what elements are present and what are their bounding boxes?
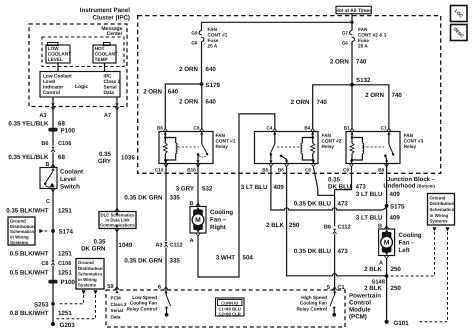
svg-text:Low Speed: Low Speed	[132, 295, 157, 300]
wire 2 ORN 740 S132 to relay3 coil	[351, 85, 353, 128]
svg-text:M: M	[195, 217, 201, 224]
svg-text:640: 640	[206, 99, 217, 106]
svg-text:Cooling: Cooling	[210, 209, 233, 216]
svg-text:Control: Control	[43, 90, 60, 96]
svg-text:FAN: FAN	[404, 133, 414, 138]
pin 5 C1 of PCM	[332, 287, 336, 294]
svg-text:2 ORN: 2 ORN	[179, 66, 198, 73]
splice S132	[350, 83, 354, 87]
svg-text:B1: B1	[344, 126, 350, 131]
svg-text:in Wiring: in Wiring	[78, 277, 97, 282]
indicator HOT COOLANT TEMP	[104, 43, 111, 46]
svg-text:2 ORN: 2 ORN	[143, 89, 162, 96]
svg-text:Ground: Ground	[10, 219, 26, 224]
dashed reference lead to S253	[82, 290, 86, 294]
pin 6 of PCM	[164, 287, 168, 294]
svg-text:C: C	[46, 199, 50, 205]
svg-text:2 ORN: 2 ORN	[291, 99, 310, 106]
wire 2 ORN 640 S179 branch to relay1 coil	[165, 84, 201, 128]
wire 3 WHT 504 right fan A to relay2 C4	[198, 114, 275, 277]
svg-text:LOW: LOW	[48, 46, 60, 51]
svg-text:Schematics: Schematics	[10, 229, 35, 234]
splice S253	[51, 302, 55, 306]
reference Ground Distribution Schematics (left)	[8, 217, 35, 245]
svg-text:Systems: Systems	[78, 283, 97, 288]
svg-text:FAN: FAN	[208, 27, 218, 32]
svg-text:S174: S174	[59, 229, 74, 236]
svg-text:Ground: Ground	[430, 195, 446, 200]
svg-text:(PCM): (PCM)	[349, 314, 367, 321]
svg-text:B: B	[189, 201, 193, 207]
relay U2 coil-switch dashed link	[277, 146, 302, 148]
svg-text:2 ORN: 2 ORN	[365, 92, 384, 99]
svg-text:Center: Center	[107, 31, 123, 37]
wire 3 LT BLU 409 relay2 B5 to S175	[271, 167, 387, 210]
svg-text:C8: C8	[41, 261, 48, 267]
svg-text:Cooling: Cooling	[399, 232, 422, 239]
svg-text:3 LT BLU: 3 LT BLU	[356, 215, 383, 222]
svg-text:1251: 1251	[58, 310, 72, 317]
wire 0.8 BLK/WHT 1251 S253 to G203	[52, 304, 54, 324]
svg-text:409: 409	[274, 184, 285, 191]
relay U1 coil	[164, 132, 166, 144]
label Hot at All Times	[336, 6, 371, 14]
wire 0.35 GRY 1036 IPC A7 to DLC	[116, 107, 118, 212]
wire 2 BLK 250 S148 to G101	[386, 276, 388, 322]
svg-text:Powertrain: Powertrain	[349, 293, 381, 300]
ground G203	[51, 322, 55, 326]
dashed reference lead to G101	[445, 227, 449, 231]
svg-text:Fuse: Fuse	[358, 38, 369, 43]
svg-text:Level: Level	[43, 79, 55, 85]
wire LOW indicator to logic	[57, 63, 59, 72]
wire 0.5 BLK/WHT 1251 S174 to C106	[52, 231, 54, 260]
wire 2 ORN 740 fuse2 to S132	[351, 42, 353, 85]
svg-text:C106: C106	[58, 261, 71, 267]
svg-text:GRY: GRY	[98, 158, 112, 165]
svg-text:250: 250	[391, 266, 402, 273]
connector P100 upper	[48, 128, 57, 132]
relay U3 pin C9 bottom	[349, 160, 353, 167]
svg-text:COOLANT: COOLANT	[95, 52, 118, 57]
svg-text:S132: S132	[356, 77, 371, 84]
node feed junction	[350, 21, 353, 24]
svg-text:2 ORN: 2 ORN	[179, 99, 198, 106]
svg-text:CONT #1: CONT #1	[208, 32, 228, 37]
button LOC (top right)	[451, 6, 468, 22]
svg-text:3 LT BLU: 3 LT BLU	[356, 191, 383, 198]
splice S174	[51, 229, 55, 233]
svg-text:Level: Level	[60, 176, 76, 183]
svg-text:CONT #2: CONT #2	[322, 139, 342, 144]
svg-text:Instrument Panel: Instrument Panel	[80, 7, 130, 14]
svg-text:59: 59	[107, 284, 113, 290]
wire 0.35 DK GRN 1049 DLC to PCM pin 59	[116, 229, 118, 291]
Underhood Junction Block dashed box	[138, 16, 441, 174]
svg-text:473: 473	[356, 184, 367, 191]
wire 2 ORN 740 S132 branch to relay2 coil	[313, 85, 352, 128]
svg-text:COOLANT: COOLANT	[48, 52, 71, 57]
svg-text:S253: S253	[34, 302, 49, 309]
svg-text:G101: G101	[394, 320, 410, 327]
svg-text:740: 740	[392, 92, 403, 99]
svg-text:M: M	[384, 240, 390, 247]
low speed fan control driver switch	[165, 290, 167, 295]
IPC instrument panel cluster dashed box	[29, 24, 127, 107]
relay U2 pin B4 top	[311, 128, 315, 135]
svg-text:B: B	[45, 162, 49, 168]
svg-text:Serial: Serial	[111, 308, 124, 313]
svg-text:0.35 BLK/WHT: 0.35 BLK/WHT	[6, 208, 49, 215]
PCM powertrain control module dashed box	[106, 290, 345, 327]
high speed fan control driver switch	[334, 290, 336, 295]
svg-text:C106: C106	[58, 141, 71, 147]
svg-text:G9: G9	[191, 30, 198, 35]
svg-text:Logic: Logic	[75, 84, 89, 90]
svg-text:1251: 1251	[58, 270, 72, 277]
svg-text:Ground: Ground	[78, 260, 94, 265]
IPC logic box	[40, 72, 120, 98]
wire 0.35 DK GRN 335 C112 to PCM pin 6	[165, 248, 167, 291]
svg-text:CONT #3: CONT #3	[404, 139, 424, 144]
svg-text:A: A	[189, 238, 193, 244]
relay U1 coil-switch dashed link	[178, 146, 200, 148]
relay U3 coil	[351, 132, 353, 144]
wire HOT indicator to logic	[104, 63, 106, 72]
svg-text:Relay Control: Relay Control	[297, 306, 327, 311]
svg-text:0.35 YEL/BLK: 0.35 YEL/BLK	[8, 121, 49, 128]
svg-text:B9: B9	[378, 167, 384, 172]
svg-text:Low Coolant: Low Coolant	[43, 74, 72, 80]
svg-text:A3: A3	[155, 243, 162, 249]
svg-text:LEVEL: LEVEL	[48, 57, 63, 62]
wire 0.35 DK BLU 473 coils to C112	[334, 190, 336, 227]
relay U1 FAN CONT #1 box	[159, 132, 213, 164]
svg-text:TEMP: TEMP	[95, 57, 108, 62]
svg-text:PCM: PCM	[111, 296, 121, 301]
wire 2 ORN 640 fuse1 to S179	[201, 42, 203, 85]
svg-text:473: 473	[338, 248, 349, 255]
svg-text:740: 740	[317, 99, 328, 106]
svg-text:C6: C6	[305, 167, 311, 172]
svg-text:FAN: FAN	[322, 133, 332, 138]
relay U2 coil	[312, 132, 314, 144]
svg-text:Right: Right	[210, 224, 226, 231]
wire 2 BLK 250 left fan A to S148	[386, 259, 388, 277]
relay U3 switch	[388, 132, 390, 145]
svg-text:Distribution: Distribution	[78, 266, 103, 271]
svg-text:Relay: Relay	[216, 144, 229, 149]
svg-text:1251: 1251	[58, 251, 72, 258]
wire feed to fuse 1	[202, 21, 353, 23]
svg-text:Control: Control	[349, 300, 371, 307]
svg-text:IPC: IPC	[104, 74, 113, 80]
svg-text:335: 335	[170, 258, 181, 265]
relay U1 pin C8 top	[200, 128, 204, 135]
svg-text:0.35: 0.35	[328, 177, 341, 184]
motor M2 Cooling Fan Left	[379, 229, 395, 256]
ground G101	[385, 320, 389, 324]
svg-text:Data: Data	[104, 90, 115, 96]
relay U1 pin B6 top	[163, 128, 167, 135]
wire logic to IPC pin A7	[116, 97, 118, 107]
svg-text:P100: P100	[61, 279, 76, 286]
dashed reference lead to G203	[93, 290, 97, 294]
svg-text:250: 250	[289, 222, 300, 229]
svg-text:in Wiring: in Wiring	[430, 213, 449, 218]
svg-text:FAN: FAN	[358, 27, 368, 32]
svg-text:409: 409	[390, 191, 401, 198]
svg-text:FAN: FAN	[216, 133, 226, 138]
svg-text:B6: B6	[157, 126, 163, 131]
svg-text:Junction Block –: Junction Block –	[387, 176, 436, 183]
svg-text:2 BLK: 2 BLK	[266, 222, 284, 229]
svg-text:G7: G7	[342, 30, 349, 35]
wire 2 BLK 250 relay2 B6 to S148	[287, 167, 387, 276]
svg-text:1049: 1049	[119, 242, 133, 249]
relay U2 pin C6 bottom	[311, 160, 315, 167]
svg-text:Cooling Fan: Cooling Fan	[300, 301, 327, 306]
relay U2 pin C4 top	[273, 128, 277, 135]
svg-text:Serial: Serial	[104, 85, 117, 91]
svg-text:B5: B5	[262, 167, 268, 172]
relay U2 pin B6 bottom	[284, 160, 288, 167]
splice S179	[200, 82, 204, 86]
svg-text:G6: G6	[342, 41, 349, 46]
svg-text:5: 5	[327, 285, 330, 291]
svg-text:Cluster (IPC): Cluster (IPC)	[93, 15, 130, 22]
relay U3 coil-switch dashed link	[363, 146, 385, 148]
svg-text:0.35 YEL/BLK: 0.35 YEL/BLK	[8, 154, 49, 161]
svg-text:CONT #1: CONT #1	[216, 139, 236, 144]
svg-text:Switch: Switch	[60, 184, 80, 191]
dashed reference lead to S174	[39, 229, 43, 233]
svg-text:Systems: Systems	[430, 219, 449, 224]
svg-text:C8: C8	[194, 126, 200, 131]
svg-text:6: 6	[158, 285, 161, 291]
svg-text:C1: C1	[338, 285, 345, 291]
pin A cooling fan left	[384, 252, 388, 259]
CONN ID table	[216, 298, 245, 316]
svg-text:2 BLK: 2 BLK	[364, 266, 382, 273]
svg-text:Cooling Fan: Cooling Fan	[130, 301, 157, 306]
svg-text:250: 250	[391, 285, 402, 292]
svg-text:Fan –: Fan –	[210, 217, 227, 224]
svg-text:Hot at All Times: Hot at All Times	[335, 8, 372, 14]
svg-text:C1: C1	[381, 126, 387, 131]
svg-text:Module: Module	[349, 307, 371, 314]
relay U1 switch	[201, 132, 203, 145]
svg-text:Class 2: Class 2	[111, 302, 128, 307]
wire 0.35 DK GRN 335 relay1 C10 to C112	[165, 164, 167, 242]
svg-text:Schematics: Schematics	[430, 207, 455, 212]
svg-text:0.35 DK BLU: 0.35 DK BLU	[294, 248, 332, 255]
svg-text:25 A: 25 A	[208, 44, 218, 49]
connector P100 lower	[48, 280, 57, 284]
svg-text:C112: C112	[170, 243, 183, 249]
reference DLC Schematics in Data Link Communications	[99, 212, 136, 229]
svg-text:0.5 BLK/WHT: 0.5 BLK/WHT	[10, 251, 49, 258]
svg-text:A7: A7	[104, 113, 111, 119]
svg-text:A3: A3	[39, 113, 46, 119]
svg-text:in Wiring: in Wiring	[10, 235, 29, 240]
switch SW1 coolant level	[40, 168, 57, 189]
svg-text:2 ORN: 2 ORN	[330, 59, 349, 66]
svg-text:409: 409	[390, 215, 401, 222]
svg-text:Indicator: Indicator	[43, 85, 63, 91]
svg-text:335: 335	[170, 195, 181, 202]
svg-text:HOT: HOT	[95, 46, 105, 51]
svg-text:C10: C10	[155, 167, 164, 172]
svg-text:Distribution: Distribution	[430, 201, 455, 206]
svg-text:68: 68	[58, 154, 65, 161]
wire 2 ORN 740 S132 branch to relay3 switch	[352, 85, 389, 128]
reference Ground Distribution Schematics (right)	[428, 194, 455, 226]
relay U2 pin B5 bottom	[269, 160, 273, 167]
wire 0.35 DK BLU 473 relay3 C9 branch	[335, 167, 352, 190]
svg-text:1251: 1251	[58, 208, 72, 215]
button DESC (top right)	[451, 25, 468, 41]
svg-text:Coolant: Coolant	[60, 169, 83, 176]
wire 0.35 DK BLU 473 C112 to PCM pin 5	[334, 234, 336, 290]
svg-text:Relay Control: Relay Control	[127, 306, 157, 311]
svg-text:Distribution: Distribution	[10, 224, 35, 229]
svg-text:DK GRN: DK GRN	[81, 246, 106, 253]
svg-text:3 GRY: 3 GRY	[176, 186, 195, 193]
svg-text:G203: G203	[60, 322, 76, 329]
svg-text:640: 640	[206, 66, 217, 73]
svg-text:B4: B4	[304, 126, 310, 131]
svg-text:CONN ID: CONN ID	[221, 300, 238, 305]
svg-text:2 BLK: 2 BLK	[364, 285, 382, 292]
pin A7 of IPC	[115, 103, 119, 110]
svg-text:C2=80 CLR: C2=80 CLR	[219, 311, 241, 316]
reference Ground Distribution Schematics (middle)	[76, 259, 104, 290]
dashed reference lead to S148	[432, 227, 436, 231]
wire Hot at All Times feed down	[351, 14, 353, 31]
svg-text:Data: Data	[111, 314, 121, 319]
relay U3 pin B9 bottom	[384, 160, 388, 167]
svg-text:1036: 1036	[121, 155, 135, 162]
svg-text:504: 504	[243, 255, 254, 262]
svg-text:S175: S175	[390, 204, 405, 211]
relay U3 pin C1 top	[387, 128, 391, 135]
wire 3 GRY 532 relay1 B10 to right fan	[197, 164, 199, 207]
motor M1 Cooling Fan Right	[190, 207, 206, 234]
svg-text:C112: C112	[338, 225, 351, 231]
svg-text:Fan –: Fan –	[399, 240, 416, 247]
svg-text:G8: G8	[191, 41, 198, 46]
wire logic to IPC pin A3	[52, 97, 54, 107]
svg-text:B6: B6	[278, 167, 284, 172]
splice S148	[385, 274, 389, 278]
relay U3 pin B1 top	[350, 128, 354, 135]
svg-text:473: 473	[338, 201, 349, 208]
svg-text:B6: B6	[324, 225, 331, 231]
indicator LOW COOLANT LEVEL	[48, 43, 59, 46]
pin A cooling fan right	[196, 230, 200, 237]
splice S175	[385, 204, 389, 208]
svg-text:Underhood (Bottom): Underhood (Bottom)	[383, 182, 435, 189]
pin 59 of PCM	[115, 287, 119, 294]
svg-text:532: 532	[202, 186, 213, 193]
svg-text:3 LT BLU: 3 LT BLU	[241, 184, 268, 191]
svg-text:0.35 DK GRN: 0.35 DK GRN	[124, 258, 163, 265]
svg-text:High Speed: High Speed	[301, 295, 327, 300]
svg-text:0.8 BLK/WHT: 0.8 BLK/WHT	[10, 310, 49, 317]
svg-text:Relay: Relay	[322, 144, 335, 149]
wire 2 ORN 640 S179 to relay1 switch	[201, 84, 203, 128]
svg-text:0.5 BLK/WHT: 0.5 BLK/WHT	[10, 270, 49, 277]
svg-text:Fuse: Fuse	[208, 38, 219, 43]
svg-text:640: 640	[168, 89, 179, 96]
relay U2 FAN CONT #2 box	[255, 132, 319, 164]
wire 3 LT BLU 409 S175 to left fan	[386, 206, 388, 229]
svg-text:Systems: Systems	[10, 240, 29, 245]
svg-text:3 WHT: 3 WHT	[216, 255, 235, 262]
message center dashed box	[42, 37, 124, 67]
svg-text:CONT #2 & 3: CONT #2 & 3	[358, 32, 387, 37]
svg-text:C9: C9	[343, 167, 349, 172]
svg-text:25 A: 25 A	[358, 44, 368, 49]
svg-text:B6: B6	[41, 141, 48, 147]
svg-text:740: 740	[356, 59, 367, 66]
wire 0.5 BLK/WHT 1251 C106 to P100	[52, 266, 54, 304]
svg-text:Left: Left	[399, 247, 410, 254]
wire 0.35 YEL/BLK 68 IPC A3 to P100	[52, 107, 54, 146]
wire 0.35 YEL/BLK 68 to coolant level switch	[52, 152, 54, 167]
svg-text:Class 2: Class 2	[104, 79, 121, 85]
wire 0.35 BLK/WHT 1251 switch to S174	[52, 189, 54, 232]
svg-text:0.35 DK GRN: 0.35 DK GRN	[124, 195, 163, 202]
relay U2 switch	[274, 132, 276, 145]
relay U1 pin C10 bottom	[164, 160, 168, 167]
svg-text:P100: P100	[61, 127, 76, 134]
svg-text:S179: S179	[206, 82, 221, 89]
wire 3 LT BLU 409 relay3 B9 to S175	[386, 164, 388, 206]
svg-text:0.35 DK BLU: 0.35 DK BLU	[294, 201, 332, 208]
fuse F2 FAN CONT #2 & 3 25A	[350, 31, 353, 35]
svg-text:Relay: Relay	[404, 144, 417, 149]
relay U3 FAN CONT #3 box	[346, 132, 400, 164]
fuse F1 FAN CONT #1 25A	[199, 31, 202, 35]
svg-text:Schematics: Schematics	[78, 271, 103, 276]
wire 0.35 DK BLU relay2 C6 branch	[313, 167, 334, 195]
svg-text:B10: B10	[187, 167, 196, 172]
svg-text:DK BLU: DK BLU	[328, 184, 352, 191]
pin A3 of IPC	[51, 103, 55, 110]
svg-text:C4: C4	[267, 126, 273, 131]
svg-text:0.35: 0.35	[93, 239, 106, 246]
relay U1 pin B10 bottom	[196, 160, 200, 167]
